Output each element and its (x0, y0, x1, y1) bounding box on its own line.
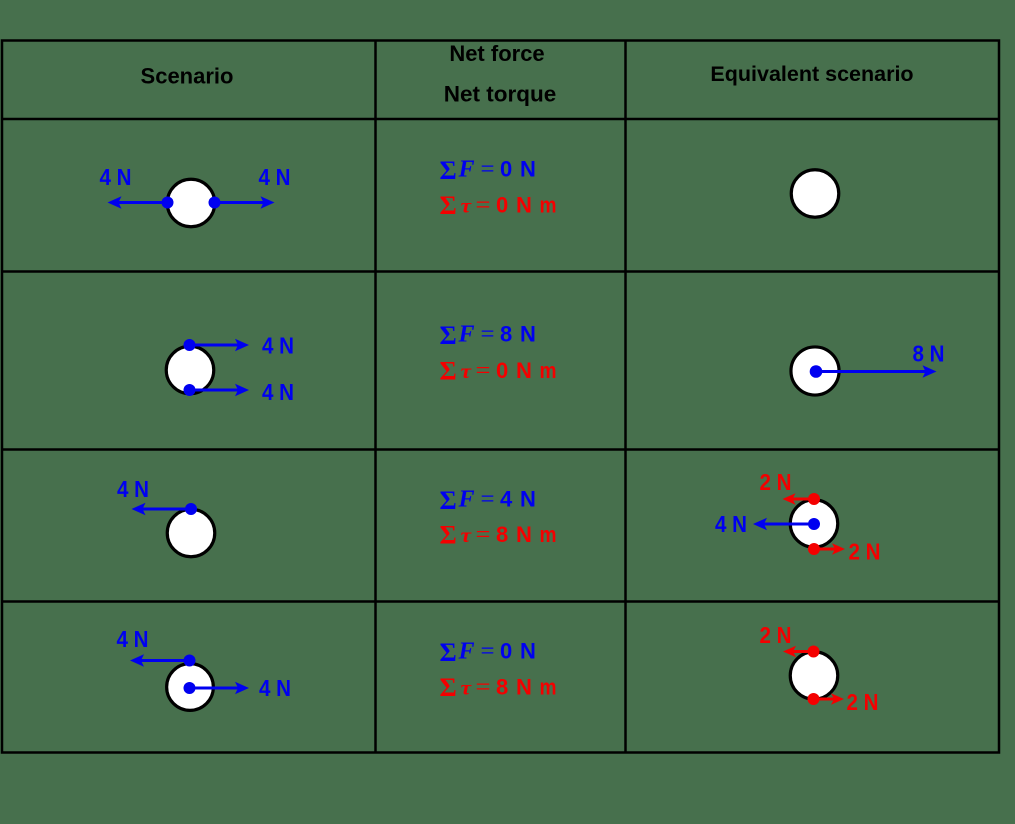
circle puck row4 scenario (167, 664, 214, 711)
force arrow 8N row2 equivalent (810, 365, 937, 378)
svg-text:Σ: Σ (440, 486, 457, 515)
svg-text:=: = (481, 322, 495, 348)
svg-text:4 N: 4 N (715, 511, 747, 537)
force arrow 4N bottom row2 (184, 384, 250, 397)
svg-text:0: 0 (496, 358, 508, 383)
svg-text:N: N (520, 157, 536, 182)
equation net torque row3 (440, 520, 557, 549)
svg-text:τ: τ (461, 676, 472, 700)
svg-text:2 N: 2 N (760, 469, 792, 495)
couple arrow 2N bottom-right row3 equivalent (808, 543, 845, 555)
circle puck row2 equivalent (791, 347, 839, 395)
equation net force row1 (440, 156, 536, 185)
force arrow 4N top row2 (184, 339, 250, 352)
circle puck row4 equivalent (790, 652, 838, 700)
svg-text:Σ: Σ (440, 356, 457, 385)
svg-text:N: N (520, 486, 536, 511)
svg-text:τ: τ (461, 523, 472, 547)
svg-text:m: m (540, 522, 557, 547)
svg-text:8: 8 (500, 322, 512, 347)
svg-text:4 N: 4 N (117, 626, 149, 652)
svg-text:Σ: Σ (440, 673, 457, 702)
svg-text:4 N: 4 N (100, 164, 132, 190)
couple arrow 2N bottom-right row4 equivalent (808, 693, 845, 705)
circle puck row1 scenario (167, 179, 215, 227)
svg-text:Σ: Σ (440, 638, 457, 667)
svg-text:=: = (481, 639, 495, 665)
svg-text:F: F (458, 486, 475, 512)
svg-text:=: = (476, 192, 491, 218)
svg-text:4: 4 (500, 486, 513, 511)
force arrow 4N top-left row3 (132, 503, 198, 516)
svg-text:N: N (516, 522, 532, 547)
svg-text:2 N: 2 N (849, 539, 881, 565)
svg-text:m: m (540, 358, 557, 383)
svg-text:τ: τ (461, 359, 472, 383)
equation net torque row2 (440, 356, 557, 385)
couple arrow 2N top-left row4 equivalent (783, 646, 820, 658)
svg-text:m: m (540, 675, 557, 700)
svg-text:N: N (520, 322, 536, 347)
svg-text:Σ: Σ (440, 191, 457, 220)
force arrow 4N right row1 (209, 196, 275, 209)
svg-text:=: = (476, 675, 491, 701)
svg-text:=: = (481, 157, 495, 183)
svg-text:0: 0 (500, 639, 512, 664)
svg-text:m: m (540, 192, 557, 217)
svg-text:2 N: 2 N (760, 622, 792, 648)
svg-text:F: F (458, 639, 475, 665)
svg-text:Scenario: Scenario (141, 64, 234, 89)
svg-text:8: 8 (496, 675, 508, 700)
svg-text:4 N: 4 N (259, 675, 291, 701)
force arrow 4N center-right row4 (184, 682, 250, 695)
svg-text:4 N: 4 N (262, 333, 294, 359)
circle puck row2 scenario (166, 346, 214, 394)
svg-text:N: N (516, 358, 532, 383)
equation net force row4 (440, 638, 536, 667)
svg-text:F: F (458, 322, 475, 348)
svg-text:N: N (520, 639, 536, 664)
svg-text:8: 8 (496, 522, 508, 547)
svg-text:4 N: 4 N (117, 476, 149, 502)
svg-text:=: = (481, 486, 495, 512)
force arrow 4N left row1 (108, 196, 174, 209)
equation net torque row4 (440, 673, 557, 702)
svg-text:Equivalent scenario: Equivalent scenario (710, 62, 913, 86)
circle puck row3 equivalent (790, 500, 838, 548)
svg-text:Σ: Σ (440, 156, 457, 185)
couple arrow 2N top-left row3 equivalent (783, 493, 821, 505)
svg-text:4 N: 4 N (262, 379, 294, 405)
circle puck row1 equivalent (791, 170, 839, 218)
svg-text:τ: τ (461, 193, 472, 217)
svg-text:2 N: 2 N (847, 689, 879, 715)
force arrow 4N top-left row4 (130, 654, 196, 667)
equation net force row2 (440, 321, 536, 350)
svg-text:F: F (458, 157, 475, 183)
svg-text:0: 0 (500, 157, 512, 182)
svg-text:Σ: Σ (440, 520, 457, 549)
svg-text:8 N: 8 N (913, 341, 945, 367)
svg-text:Net force: Net force (449, 41, 544, 66)
svg-text:=: = (476, 522, 491, 548)
svg-text:=: = (476, 358, 491, 384)
svg-text:N: N (516, 192, 532, 217)
circle puck row3 scenario (167, 509, 215, 557)
svg-text:4 N: 4 N (259, 164, 291, 190)
force arrow 4N center-left row3 equivalent (753, 518, 820, 531)
svg-text:N: N (516, 675, 532, 700)
svg-text:Net torque: Net torque (444, 82, 557, 107)
equation net torque row1 (440, 191, 557, 220)
equation net force row3 (440, 486, 536, 515)
svg-text:0: 0 (496, 192, 508, 217)
svg-text:Σ: Σ (440, 321, 457, 350)
